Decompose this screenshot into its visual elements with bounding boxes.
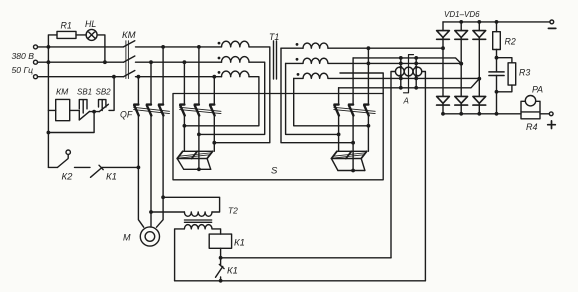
motor M	[140, 227, 159, 246]
contactor KM contact 1	[124, 41, 135, 47]
node S-left col3	[212, 141, 216, 145]
node S1 riser	[367, 46, 371, 50]
inductor T2 primary	[184, 212, 212, 216]
node L1-R1 tap	[47, 45, 51, 49]
polarity dot S3	[297, 73, 300, 76]
wire K1 contact bottom lead	[220, 277, 222, 281]
node L1 S tap	[197, 45, 201, 49]
wire cap bottom	[496, 76, 498, 114]
wire KM holding loop	[48, 112, 94, 133]
transformer T1 core	[274, 41, 277, 79]
node A col2 r4	[414, 86, 418, 90]
contactor KM contact 3	[124, 71, 135, 77]
wire S lower-right bar	[338, 170, 365, 172]
node leg2 feed	[459, 62, 463, 66]
terminal plus	[549, 112, 553, 116]
wire S-left column 2	[198, 47, 200, 169]
reactor A circle 2	[404, 67, 413, 76]
wire S-left column 3	[213, 77, 215, 152]
wire S1 line to VD	[328, 47, 443, 49]
wire S-right column 2	[352, 58, 354, 171]
diode VD leg 2	[460, 22, 462, 31]
reactor A core bracket	[404, 55, 414, 93]
QF linkage	[134, 107, 170, 113]
wire S2 descent	[286, 63, 339, 134]
wire T2 primary right	[163, 197, 220, 212]
node A col1 r4	[399, 86, 403, 90]
node A col1 r1	[399, 56, 403, 60]
label plus	[548, 121, 556, 129]
wire HL to L2	[97, 35, 105, 62]
wire motor feeder 1	[138, 116, 143, 228]
wire S-right column 1	[338, 88, 340, 152]
switch block S outline	[173, 94, 383, 180]
svg-text:К1: К1	[227, 266, 238, 277]
node bus leg3	[477, 20, 481, 24]
wire SB2 up to L3	[109, 77, 114, 111]
node L2 KM-coil tap	[47, 60, 51, 64]
wire P2 return	[199, 62, 265, 134]
wire T2 sec left	[175, 229, 185, 281]
polarity dot S1	[296, 43, 299, 46]
S-right upper linkage	[334, 107, 375, 113]
wire bus L1 left	[38, 46, 124, 48]
S-left upper linkage	[180, 107, 221, 113]
svg-text:380 В: 380 В	[12, 51, 35, 61]
contact K1 NO	[91, 165, 104, 177]
svg-text:QF: QF	[120, 110, 133, 120]
wire KM coil drop	[47, 47, 49, 167]
terminal L1	[34, 45, 38, 49]
svg-text:К1: К1	[234, 238, 245, 249]
lamp HL	[86, 29, 97, 40]
wire S2 line to leg2	[328, 62, 461, 64]
svg-text:R4: R4	[526, 122, 538, 132]
node S lower-right bar	[351, 169, 355, 173]
switch S lower-left blade 3	[207, 151, 213, 158]
svg-text:М: М	[123, 233, 131, 243]
wire K2 to K1	[75, 166, 91, 168]
switch S lower-right blade 1	[331, 151, 337, 158]
polarity dot S2	[296, 58, 299, 61]
node L2 S tap	[183, 60, 187, 64]
ammeter PA	[525, 96, 535, 106]
wire R1 to HL	[76, 34, 86, 36]
wire phase line y57.9	[353, 58, 461, 64]
inductor T1 secondary 2	[303, 58, 328, 63]
switch S contact L1	[180, 105, 185, 116]
node A col1 r3	[399, 77, 403, 81]
terminal L2	[34, 60, 38, 64]
KM linkage	[126, 41, 128, 79]
node T2 tap feeder3	[161, 195, 165, 199]
wire S3 left stub	[294, 77, 303, 79]
switch S lower-left blade 1	[177, 151, 183, 158]
switch S contact R3	[364, 105, 369, 116]
wire plus out	[540, 113, 549, 115]
inductor T2 secondary	[184, 225, 212, 229]
wire S3 descent	[294, 78, 369, 125]
wire P3 return	[184, 77, 259, 126]
diode VD leg 1	[442, 22, 444, 31]
wire K2 branch	[48, 166, 57, 168]
wire bus L1 right	[136, 46, 222, 48]
wire R3 bottom	[497, 85, 512, 92]
terminal L3	[34, 75, 38, 79]
switch S lower-left blade 2	[192, 151, 198, 158]
svg-text:R1: R1	[61, 21, 72, 31]
wire motor feeder 2	[150, 116, 152, 228]
switch S lower-right box back	[337, 150, 367, 152]
inductor T1 primary 1	[222, 41, 250, 47]
wire K1 coil bottom	[220, 248, 222, 265]
wire SB1 to SB2	[90, 111, 100, 113]
button SB2	[99, 100, 109, 112]
wire P1 return	[214, 47, 269, 143]
polarity dot P3	[218, 71, 221, 74]
node T2 tap feeder2	[149, 210, 153, 214]
transformer T2 core	[184, 220, 211, 222]
node A col1 circle bottom	[399, 74, 402, 77]
breaker QF pole 2	[147, 105, 152, 116]
breaker QF pole 1	[134, 105, 139, 116]
node HL-L2	[103, 60, 107, 64]
node S-left col2	[197, 133, 201, 137]
label minus	[548, 27, 555, 29]
node plus bus leg3	[477, 112, 481, 116]
wire R2 bottom	[497, 50, 512, 72]
wire bus L2 left	[38, 61, 124, 63]
node bus R2	[495, 20, 499, 24]
switch S lower-right blade 3	[361, 151, 367, 158]
reactor A circle 1	[395, 67, 404, 76]
svg-text:SB2: SB2	[96, 88, 112, 97]
shunt R4 bracket	[521, 101, 540, 112]
node L2 QF tap	[149, 60, 153, 64]
switch S lower-right front edge	[331, 158, 361, 160]
node bus leg2	[459, 20, 463, 24]
S lower-left linkage	[179, 153, 210, 158]
node A col1 r2	[399, 62, 403, 66]
wire A column 1	[400, 58, 402, 88]
node L3 QF tap	[137, 75, 141, 79]
svg-text:К1: К1	[106, 172, 117, 183]
polarity dot P2	[218, 57, 221, 60]
resistor R2	[493, 32, 501, 50]
svg-text:S: S	[271, 166, 278, 177]
wire plus bus	[443, 113, 521, 115]
wire bus L3 right	[136, 76, 222, 78]
wire S-right column 3	[367, 48, 369, 151]
node S-right col3	[367, 124, 371, 128]
wire S3 line to leg3	[328, 77, 479, 79]
node A col1 circle top	[399, 66, 402, 69]
svg-text:К2: К2	[62, 172, 74, 183]
node L3 SB tap	[112, 75, 116, 79]
svg-text:А: А	[403, 97, 409, 106]
svg-text:КМ: КМ	[122, 30, 136, 41]
contactor coil KM	[56, 99, 70, 120]
wire minus bus	[443, 21, 550, 23]
node S-right col1	[337, 133, 341, 137]
wire QF drop 1	[137, 77, 139, 105]
switch S lower-left sides	[177, 159, 211, 170]
polarity dot P1	[218, 42, 221, 45]
node S2 riser	[367, 62, 371, 66]
switch S contact L3	[210, 105, 215, 116]
wire motor feeder 3	[157, 116, 164, 228]
node A col2 circle top	[415, 66, 418, 69]
svg-text:РА: РА	[532, 85, 543, 95]
switch S lower-right sides	[331, 159, 365, 171]
svg-text:R3: R3	[519, 68, 530, 78]
wire bus L3 left	[38, 76, 124, 78]
node K1 coil node	[219, 256, 223, 260]
wire S1 left stub	[281, 47, 303, 49]
contactor KM contact 2	[124, 56, 135, 62]
switch S contact L2	[195, 105, 200, 116]
breaker QF pole 3	[159, 105, 164, 116]
wire K1 to motor line	[102, 166, 138, 168]
node L1 QF tap	[161, 45, 165, 49]
wire A column 2	[415, 58, 417, 88]
inductor T1 secondary 1	[303, 43, 328, 48]
node S-left col1	[183, 124, 187, 128]
contact K2	[58, 154, 69, 167]
contact K1 NO bottom	[216, 264, 225, 277]
switch S contact R2	[349, 105, 354, 116]
svg-text:HL: HL	[85, 19, 96, 29]
wire phase line y87.8	[339, 79, 480, 88]
svg-text:T1: T1	[269, 32, 279, 42]
node A col2 r1	[414, 56, 418, 60]
wire T2 sec right	[212, 229, 221, 234]
switch S lower-left front edge	[177, 158, 207, 160]
wire bottom return	[175, 280, 426, 282]
svg-text:SB1: SB1	[77, 88, 92, 97]
node R3 join	[495, 90, 499, 94]
node motor line K1 tap	[137, 166, 141, 170]
wire A left leg	[391, 72, 395, 258]
wire A right leg	[422, 72, 426, 281]
wire QF drop 3	[162, 47, 164, 105]
wire KM coil feed	[48, 109, 55, 111]
button SB1	[79, 100, 89, 120]
wire bus L2 right	[136, 61, 222, 63]
svg-text:КМ: КМ	[56, 87, 69, 97]
resistor R3	[508, 63, 516, 85]
node bottom bus K1	[219, 279, 223, 283]
capacitor C	[489, 72, 504, 76]
reactor A circle 3	[413, 67, 422, 76]
svg-text:50 Гц: 50 Гц	[12, 65, 34, 75]
node A col2 r2	[414, 62, 418, 66]
switch S lower-left box back	[183, 150, 213, 152]
node holding loop	[47, 131, 51, 135]
wire S2 left stub	[286, 62, 303, 64]
terminal minus	[550, 20, 554, 24]
switch S contact R1	[334, 105, 339, 116]
svg-text:R2: R2	[505, 37, 516, 47]
wire S1 descent	[281, 48, 353, 143]
wire T2 primary left	[151, 211, 184, 213]
node SB junction	[92, 110, 96, 114]
shunt R4	[521, 112, 540, 119]
relay coil K1	[209, 234, 231, 248]
resistor R1	[57, 31, 76, 38]
wire KM coil to SB1	[70, 110, 80, 120]
switch S lower-right blade 2	[346, 151, 352, 158]
wire QF drop 2	[150, 62, 152, 104]
node R2 split	[495, 56, 499, 60]
node L3 S tap	[212, 75, 216, 79]
wire stub y73	[340, 73, 383, 94]
inductor T1 secondary 3	[303, 73, 328, 78]
svg-text:Т2: Т2	[228, 206, 238, 216]
inductor T1 primary 3	[222, 71, 250, 77]
node A col2 circle bottom	[415, 74, 418, 77]
node S lower-left bar	[197, 167, 201, 171]
node plus bus leg1	[441, 112, 445, 116]
node plus bus leg2	[459, 112, 463, 116]
inductor T1 primary 2	[222, 57, 250, 63]
svg-text:VD1–VD6: VD1–VD6	[444, 10, 480, 19]
node plus bus R-chain	[495, 112, 499, 116]
wire R1 branch riser	[48, 35, 57, 47]
wire K1 node to A leg	[221, 257, 391, 259]
terminal K2	[66, 150, 70, 154]
diode VD leg 3	[478, 22, 480, 31]
wire R2 top	[496, 22, 498, 32]
node S-right col2	[351, 141, 355, 145]
wire S-left column 1	[183, 62, 185, 151]
wire S lower-left bar	[184, 168, 211, 170]
S lower-right linkage	[333, 153, 364, 158]
node A col2 r3	[414, 77, 418, 81]
